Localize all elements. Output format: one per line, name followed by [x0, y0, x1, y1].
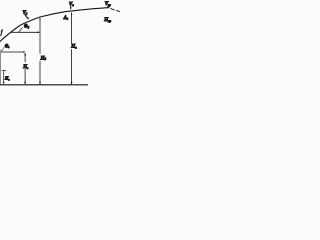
- angle arc theta-0: [2, 47, 4, 50]
- trajectory curve: [0, 8, 108, 42]
- svg-text:Нг: Нг: [4, 76, 10, 82]
- angle arc theta-b: [19, 28, 23, 32]
- up arrow x72 at curve: [71, 12, 73, 15]
- arrowhead at curve end: [107, 7, 110, 9]
- vertical line x40 upper: [39, 19, 41, 54]
- arrowhead right end line 2: [38, 31, 41, 33]
- horizontal level line 2: [11, 31, 39, 33]
- H1 down arrow: [3, 82, 5, 85]
- left vertical line: [0, 52, 2, 84]
- ground baseline: [0, 84, 88, 86]
- down arrow x72: [71, 82, 73, 85]
- H1 dimension bar: [2, 70, 6, 72]
- up arrow x40 at curve: [39, 17, 40, 19]
- dashed continuation: [111, 9, 120, 12]
- H1 stem: [3, 71, 5, 84]
- down arrow x40: [39, 82, 41, 85]
- svg-text:Vкр: Vкр: [105, 1, 112, 7]
- vertical line x25: [24, 54, 26, 84]
- horizontal level line 1: [1, 51, 24, 53]
- down arrow x25: [24, 82, 26, 85]
- svg-text:Нб: Нб: [40, 55, 47, 61]
- vertical line x72 upper: [71, 13, 73, 44]
- vertical line x40 lower: [39, 61, 41, 84]
- tick at line1 left end: [0, 50, 2, 52]
- svg-text:Нкр: Нкр: [103, 17, 111, 23]
- svg-text:Θб: Θб: [24, 25, 29, 30]
- svg-text:Δа: Δа: [63, 16, 69, 21]
- up arrow x25: [24, 53, 26, 56]
- svg-text:На: На: [70, 44, 77, 50]
- arrowhead right end line 1: [23, 51, 25, 53]
- left edge velocity mark: [1, 30, 3, 36]
- vertical line x72 lower: [71, 49, 73, 84]
- down arrow Va: [70, 6, 72, 8]
- leader arrow V6: [25, 15, 28, 18]
- svg-text:Vа: Vа: [69, 1, 74, 7]
- svg-text:Нв: Нв: [22, 65, 29, 70]
